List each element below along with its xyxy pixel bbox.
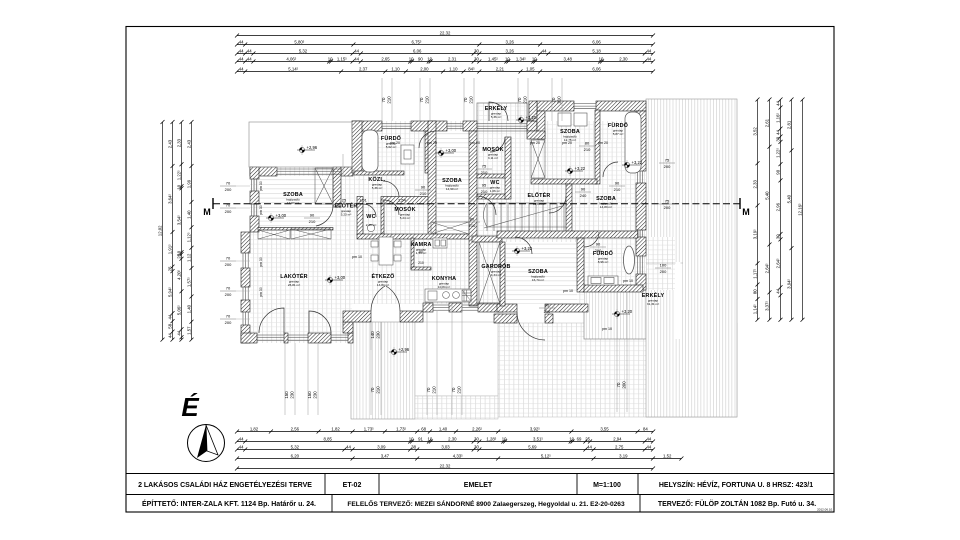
svg-text:14,90 m²: 14,90 m² <box>446 187 458 191</box>
floor centre bottom <box>352 233 584 304</box>
level marker +3,00 (271,218) <box>266 213 287 223</box>
wall: bottom wall left wing pier <box>284 333 288 343</box>
door szoba-left-mid <box>419 131 436 148</box>
svg-text:10: 10 <box>599 56 604 61</box>
windows top right wing <box>574 104 596 109</box>
door furdo-right <box>584 232 599 247</box>
svg-text:2,54: 2,54 <box>398 198 407 203</box>
svg-text:70: 70 <box>226 203 231 208</box>
svg-text:pm 10: pm 10 <box>563 289 573 293</box>
wall: inner wall szoba1275 east <box>595 110 600 184</box>
floor left wing <box>250 167 352 343</box>
title row 2 texts <box>142 499 816 508</box>
wall: inner wall mosok right east <box>505 137 511 199</box>
wall: left outer wall seg5 <box>241 300 250 312</box>
svg-text:2,56: 2,56 <box>291 426 300 431</box>
left dimension chain 3 <box>181 122 183 340</box>
svg-text:44: 44 <box>239 48 244 53</box>
svg-text:pm 10: pm 10 <box>623 279 633 283</box>
svg-text:210: 210 <box>584 147 591 152</box>
svg-text:HELYSZÍN: HÉVÍZ, FORTUNA U. 8: HELYSZÍN: HÉVÍZ, FORTUNA U. 8 HRSZ: 423/… <box>659 480 813 489</box>
svg-text:5,18: 5,18 <box>592 48 601 53</box>
svg-text:200: 200 <box>622 381 627 389</box>
svg-text:44: 44 <box>647 436 652 441</box>
svg-text:30: 30 <box>775 136 780 141</box>
svg-text:68: 68 <box>421 426 426 431</box>
svg-text:100: 100 <box>660 263 667 268</box>
interior dim 80/210 <box>579 141 595 153</box>
svg-text:TERVEZŐ: FÜLÖP ZOLTÁN 1082 Bp.: TERVEZŐ: FÜLÖP ZOLTÁN 1082 Bp. Futó u. 3… <box>658 499 816 508</box>
dining table <box>371 237 401 265</box>
door furdo-topright <box>603 162 618 177</box>
door etkezo terrace <box>371 286 400 311</box>
level marker +3,00 (441,153) <box>436 148 457 158</box>
svg-text:3,48: 3,48 <box>564 56 573 61</box>
level marker +3,22 (627,165) <box>622 160 643 170</box>
wardrobe X szoba1275 <box>531 140 545 178</box>
wall: top wall centre seg3 <box>463 121 477 131</box>
svg-text:pm 10: pm 10 <box>602 327 612 331</box>
windows bottom middle <box>433 305 449 310</box>
svg-text:10: 10 <box>176 184 181 189</box>
svg-text:240: 240 <box>580 193 587 198</box>
svg-text:210: 210 <box>469 223 476 228</box>
svg-text:3,09: 3,09 <box>377 444 386 449</box>
wall: inner wall gardrob east <box>500 242 505 306</box>
svg-text:210: 210 <box>557 96 562 104</box>
windows in left outer wall <box>252 179 257 191</box>
svg-text:26,81 m²: 26,81 m² <box>288 283 300 287</box>
wall: left outer wall seg2 <box>250 191 259 204</box>
svg-text:30: 30 <box>474 56 479 61</box>
svg-text:3,47: 3,47 <box>381 453 390 458</box>
svg-text:+3,00: +3,00 <box>446 148 457 153</box>
roof gap line right of balcony <box>676 262 681 339</box>
svg-text:10,84 m²: 10,84 m² <box>438 285 450 289</box>
svg-text:2,96: 2,96 <box>775 202 780 211</box>
wall: erkely corner wall <box>527 131 545 139</box>
svg-text:5,36 m²: 5,36 m² <box>372 186 383 190</box>
terrace grid lower-right <box>498 323 737 417</box>
wall: bath right bottom wall <box>583 285 643 292</box>
wall: top wall centre seg4 <box>527 121 537 131</box>
svg-text:90: 90 <box>545 303 550 308</box>
svg-text:230: 230 <box>313 391 318 399</box>
wall: top wall right wing seg1 <box>537 101 574 111</box>
plank floor szoba centre-left <box>436 131 469 234</box>
left dimension chain 12,02 <box>162 122 164 340</box>
svg-text:1,40: 1,40 <box>186 210 191 219</box>
svg-text:10: 10 <box>569 436 574 441</box>
svg-text:44: 44 <box>775 288 780 293</box>
floor bath right <box>584 233 646 285</box>
bottom dimension chain row 4 <box>237 458 681 460</box>
svg-text:6,06: 6,06 <box>592 66 601 71</box>
wall: bottom middle wall seg3 <box>478 303 503 312</box>
svg-text:2,94: 2,94 <box>613 436 622 441</box>
svg-text:44: 44 <box>647 48 652 53</box>
wall: inner wall szoba1275 south <box>531 179 597 184</box>
svg-text:44: 44 <box>542 48 547 53</box>
svg-text:90: 90 <box>421 185 426 190</box>
terr patch beside bath right <box>647 237 676 290</box>
kamra interior <box>418 250 424 265</box>
top dimension chain row 5 <box>237 71 653 73</box>
svg-text:ÉPÍTTETŐ: INTER-ZALA KFT. 1124: ÉPÍTTETŐ: INTER-ZALA KFT. 1124 Bp. Határ… <box>142 499 316 508</box>
wall: bottom wall szoba right a <box>497 304 517 312</box>
svg-text:10: 10 <box>409 436 414 441</box>
wardrobe X left wing <box>315 168 333 204</box>
svg-text:31,31 m²: 31,31 m² <box>647 302 659 306</box>
svg-text:210: 210 <box>595 248 602 253</box>
svg-text:6,06: 6,06 <box>592 39 601 44</box>
svg-text:91: 91 <box>418 436 423 441</box>
svg-text:M: M <box>203 207 211 217</box>
svg-text:90: 90 <box>615 181 620 186</box>
window right wall <box>638 171 643 183</box>
svg-text:90: 90 <box>775 169 780 174</box>
balcony top floor <box>477 103 527 131</box>
svg-text:16,74 m²: 16,74 m² <box>532 278 544 282</box>
left dimension chain 4 <box>191 122 193 340</box>
svg-text:ET-02: ET-02 <box>343 482 362 489</box>
svg-text:+3,22: +3,22 <box>575 166 586 171</box>
svg-text:140: 140 <box>370 331 375 339</box>
svg-text:44: 44 <box>247 56 252 61</box>
window top-left wing <box>277 169 341 174</box>
svg-text:44: 44 <box>775 101 780 106</box>
svg-text:38: 38 <box>411 444 416 449</box>
svg-text:1,40: 1,40 <box>439 426 448 431</box>
svg-text:5,32: 5,32 <box>291 444 300 449</box>
section line M-M <box>213 203 740 205</box>
door mosok-right <box>490 137 505 152</box>
staircase <box>484 203 567 231</box>
svg-text:25: 25 <box>176 253 181 258</box>
patio grid strip <box>415 396 498 419</box>
wall: top wall right wing seg2 <box>596 101 646 111</box>
svg-text:1,82: 1,82 <box>250 426 259 431</box>
bottom dimension chain row 1 <box>237 431 653 433</box>
svg-text:6,20: 6,20 <box>291 453 300 458</box>
svg-text:80: 80 <box>752 289 757 294</box>
wall: inner wall szoba-left west <box>428 121 436 235</box>
level marker +3,22 (570,171) <box>565 166 586 176</box>
svg-text:75: 75 <box>665 158 670 163</box>
svg-text:pm 20: pm 20 <box>427 141 437 145</box>
svg-text:210: 210 <box>425 96 430 104</box>
svg-text:44: 44 <box>167 314 172 319</box>
wall: outer wall top of left wing <box>250 167 277 176</box>
svg-text:6,06: 6,06 <box>413 48 422 53</box>
svg-text:200: 200 <box>660 269 667 274</box>
wall: top wall connector <box>529 101 537 121</box>
svg-text:200: 200 <box>225 209 232 214</box>
svg-text:44: 44 <box>239 436 244 441</box>
svg-text:5,62 m²: 5,62 m² <box>386 145 397 149</box>
wall: inner wall gardrob north <box>472 236 502 242</box>
svg-text:2,37: 2,37 <box>359 66 368 71</box>
svg-text:10: 10 <box>502 436 507 441</box>
wall: inner wall under kozl seg2 <box>381 197 431 205</box>
svg-text:70: 70 <box>419 97 424 102</box>
svg-text:M: M <box>742 207 750 217</box>
svg-text:210: 210 <box>376 386 381 394</box>
north arrow circle <box>188 425 225 462</box>
left dimension chain 2 <box>172 122 174 340</box>
svg-text:44: 44 <box>346 444 351 449</box>
svg-text:2,33: 2,33 <box>752 180 757 189</box>
wall: bottom middle wall seg1 <box>423 303 433 312</box>
svg-text:70: 70 <box>226 314 231 319</box>
svg-text:pm 20: pm 20 <box>390 141 400 145</box>
wall: top wall centre seg1 <box>352 121 382 131</box>
svg-text:75: 75 <box>665 199 670 204</box>
wall: inner wall szoba-furdo bottom <box>577 238 584 292</box>
svg-text:44: 44 <box>354 56 359 61</box>
wall: inner wall above lakoter <box>357 234 473 239</box>
rotated 70/210 dims above top wall <box>382 78 392 121</box>
svg-text:FELELŐS TERVEZŐ: MEZEI SÁNDORN: FELELŐS TERVEZŐ: MEZEI SÁNDORNÉ 8900 Zal… <box>347 499 625 508</box>
svg-text:2,21: 2,21 <box>496 66 505 71</box>
wall: etkezo bottom wall left <box>343 311 371 322</box>
wc bowl left <box>367 224 374 231</box>
wall: bottom wall szoba right b <box>545 304 588 312</box>
window dim right col <box>659 158 675 170</box>
wall: inner wall mosok-wc right top <box>477 174 508 178</box>
svg-text:200: 200 <box>225 320 232 325</box>
svg-text:150: 150 <box>284 391 289 399</box>
svg-text:230: 230 <box>290 391 295 399</box>
svg-text:210: 210 <box>481 189 488 194</box>
construction line at left wing right <box>342 154 344 176</box>
svg-text:pm 20: pm 20 <box>562 141 572 145</box>
svg-text:44: 44 <box>176 330 181 335</box>
svg-text:210: 210 <box>469 96 474 104</box>
svg-text:pm 20: pm 20 <box>598 141 608 145</box>
svg-text:17,67 m²: 17,67 m² <box>287 201 299 205</box>
svg-text:2,33: 2,33 <box>176 138 181 147</box>
door szoba-right <box>549 196 566 213</box>
wall: left outer wall seg4 <box>241 268 250 287</box>
svg-text:230: 230 <box>376 331 381 339</box>
svg-text:+3,00: +3,00 <box>335 275 346 280</box>
svg-text:1,82: 1,82 <box>331 426 340 431</box>
svg-text:1,52: 1,52 <box>663 453 672 458</box>
svg-text:2,43: 2,43 <box>186 139 191 148</box>
svg-text:8,85: 8,85 <box>324 436 333 441</box>
svg-text:150: 150 <box>307 391 312 399</box>
svg-text:30: 30 <box>775 234 780 239</box>
svg-text:2,43: 2,43 <box>167 139 172 148</box>
wall: right outer wall seg1 <box>636 111 646 171</box>
svg-text:84: 84 <box>643 426 648 431</box>
svg-text:75: 75 <box>482 164 487 169</box>
wall: left outer wall seg3 <box>250 216 259 232</box>
svg-text:EMELET: EMELET <box>464 482 493 489</box>
svg-text:5,69: 5,69 <box>528 444 537 449</box>
wall: party wall <box>469 131 477 306</box>
cabinet X row szoba-left <box>431 222 469 234</box>
svg-text:22,32: 22,32 <box>440 30 451 35</box>
svg-text:30: 30 <box>474 48 479 53</box>
svg-text:69: 69 <box>577 436 582 441</box>
bottom dimension chain row 3 <box>237 449 653 451</box>
terrace left vertical hatch <box>351 322 415 419</box>
svg-text:70: 70 <box>463 97 468 102</box>
right roof plane vertical hatch <box>646 99 737 417</box>
svg-text:1,99: 1,99 <box>186 179 191 188</box>
svg-text:2012.06.10.: 2012.06.10. <box>817 508 833 512</box>
bottom dimension chain row 5 (22,32) <box>237 468 653 470</box>
wall: step wall connector <box>343 322 353 333</box>
svg-text:44: 44 <box>647 56 652 61</box>
svg-text:10: 10 <box>428 436 433 441</box>
rotated 150/230 dims below left wing <box>285 343 295 415</box>
svg-text:3,26: 3,26 <box>506 39 515 44</box>
svg-text:+2,96: +2,96 <box>307 145 318 150</box>
svg-text:2,65: 2,65 <box>381 56 390 61</box>
svg-text:pm 30: pm 30 <box>259 287 263 297</box>
svg-text:210: 210 <box>481 170 488 175</box>
svg-text:pm 30: pm 30 <box>259 205 263 215</box>
wall: bottom wall left wing seg3 <box>348 333 353 343</box>
svg-text:25: 25 <box>167 266 172 271</box>
svg-text:5,40: 5,40 <box>764 191 769 200</box>
right dimension chain 2 <box>769 100 771 320</box>
svg-text:5,36 m²: 5,36 m² <box>491 115 502 119</box>
leader line 100/200 <box>634 262 683 264</box>
svg-text:+3,22: +3,22 <box>632 160 643 165</box>
svg-text:pm 20: pm 20 <box>470 141 480 145</box>
door szoba-left wing <box>316 205 333 226</box>
right dimension chain 5 <box>802 100 804 320</box>
svg-text:10: 10 <box>505 56 510 61</box>
svg-text:pm 30: pm 30 <box>259 181 263 191</box>
svg-text:200: 200 <box>664 205 671 210</box>
door lakoter balcony 1 <box>259 308 284 333</box>
svg-text:+3,00: +3,00 <box>276 213 287 218</box>
svg-text:5,24 m²: 5,24 m² <box>400 216 411 220</box>
wall: inner wall wc-mosok <box>381 200 384 234</box>
top dimension chain row 4 <box>237 61 653 63</box>
wall: inner wall furdo-left east <box>425 131 431 173</box>
svg-text:8,96 m²: 8,96 m² <box>598 260 609 264</box>
svg-text:210: 210 <box>309 219 316 224</box>
svg-text:11,06 m²: 11,06 m² <box>533 202 545 206</box>
svg-text:90: 90 <box>310 213 315 218</box>
wall: left outer wall step <box>241 232 250 253</box>
svg-text:44: 44 <box>587 444 592 449</box>
level marker +3,22 (517,251) <box>512 246 533 256</box>
svg-text:200: 200 <box>225 187 232 192</box>
svg-text:É: É <box>181 392 199 422</box>
svg-text:30: 30 <box>474 436 479 441</box>
svg-text:44: 44 <box>647 444 652 449</box>
svg-text:200: 200 <box>225 262 232 267</box>
svg-text:3,03: 3,03 <box>441 444 450 449</box>
sideboard X row lakoter <box>258 229 331 239</box>
svg-text:70: 70 <box>370 387 375 392</box>
right dimension chain 1 <box>757 100 759 320</box>
wall: etkezo bottom wall right <box>400 311 423 322</box>
bathtub top-right <box>625 112 641 173</box>
svg-text:70: 70 <box>226 286 231 291</box>
svg-text:210: 210 <box>523 96 528 104</box>
svg-text:210: 210 <box>418 261 424 265</box>
svg-text:1,10: 1,10 <box>449 66 458 71</box>
svg-text:1,06 m²: 1,06 m² <box>490 189 501 193</box>
svg-text:80: 80 <box>585 141 590 146</box>
oval tub bottom-right <box>624 246 635 274</box>
plank floor szoba left wing <box>259 176 333 227</box>
door mosok-left <box>384 200 399 215</box>
bottom dimension chain row 2 <box>237 441 653 443</box>
svg-text:10: 10 <box>409 56 414 61</box>
svg-text:70: 70 <box>451 387 456 392</box>
svg-text:12,02: 12,02 <box>157 225 162 236</box>
door wc-left <box>363 204 376 217</box>
svg-text:5,87 m²: 5,87 m² <box>613 132 624 136</box>
svg-text:25: 25 <box>585 436 590 441</box>
svg-text:2,16 m²: 2,16 m² <box>366 223 377 227</box>
floor centre top band <box>352 121 646 233</box>
svg-text:200: 200 <box>664 164 671 169</box>
svg-text:10: 10 <box>328 56 333 61</box>
svg-text:2,00: 2,00 <box>420 66 429 71</box>
wall: right outer wall seg2 <box>636 183 646 230</box>
svg-text:3,52: 3,52 <box>752 127 757 136</box>
wall: inner wall wc right south <box>477 194 508 199</box>
title row 1 texts <box>138 480 813 489</box>
shower column furdo-left <box>401 145 414 164</box>
wall: inner wall furdo-left south <box>354 171 404 175</box>
top dimension chain row 2 <box>237 44 653 46</box>
wall: bottom wall left wing seg1 <box>241 333 257 343</box>
svg-text:pm 20: pm 20 <box>530 141 540 145</box>
wall: outer wall top-left pier <box>341 167 353 176</box>
door eloter-right <box>477 196 496 215</box>
svg-text:pm 30: pm 30 <box>259 257 263 267</box>
svg-text:2,30: 2,30 <box>619 56 628 61</box>
svg-text:70: 70 <box>616 382 621 387</box>
wall: konyha outside step wall b <box>545 314 553 323</box>
basins top right <box>558 113 571 126</box>
kitchen counter <box>425 289 471 302</box>
windows bottom-left wing <box>257 335 284 340</box>
door erkely-top <box>489 102 508 121</box>
fridge boxes konyha <box>433 238 447 248</box>
svg-text:210: 210 <box>544 309 551 314</box>
sheet border frame <box>126 27 834 513</box>
svg-text:80: 80 <box>470 217 475 222</box>
svg-text:3,19: 3,19 <box>619 453 628 458</box>
svg-text:10: 10 <box>427 56 432 61</box>
svg-text:1,54 m²: 1,54 m² <box>416 251 427 255</box>
gardrob X <box>479 242 500 304</box>
svg-text:44: 44 <box>775 130 780 135</box>
svg-text:WC: WC <box>366 214 375 220</box>
wall: top wall centre seg2 <box>411 121 447 131</box>
level marker +2,96 (394,352) <box>389 347 410 357</box>
svg-text:+2,96: +2,96 <box>399 347 410 352</box>
svg-text:+3,20: +3,20 <box>526 115 537 120</box>
svg-text:1,05: 1,05 <box>526 66 535 71</box>
eaves outline above left wing <box>249 122 352 167</box>
level marker +3,20 (521,120) <box>516 115 537 125</box>
svg-text:2,31: 2,31 <box>448 56 457 61</box>
svg-text:70: 70 <box>381 97 386 102</box>
